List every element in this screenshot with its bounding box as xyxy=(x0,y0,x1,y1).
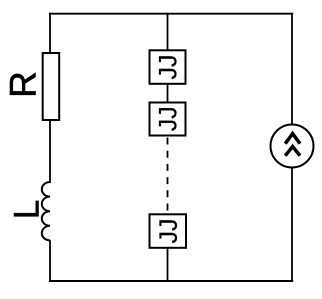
svg-text:L: L xyxy=(8,200,47,219)
Josephson junction JJN xyxy=(150,214,187,248)
resistor R xyxy=(43,53,60,120)
label L xyxy=(8,200,47,219)
svg-text:JJ: JJ xyxy=(155,55,183,80)
svg-text:JJ: JJ xyxy=(155,219,183,244)
label R xyxy=(3,71,44,98)
current source I xyxy=(271,125,314,168)
Josephson junction JJ2 xyxy=(150,103,186,136)
wire top xyxy=(49,13,293,15)
wire right upper xyxy=(291,13,293,125)
inductor L xyxy=(42,182,50,240)
wire left middle xyxy=(49,120,51,183)
wire middle between JJ1 and JJ2 xyxy=(167,84,169,103)
wire middle dashed (ellipsis) xyxy=(167,138,169,215)
wire middle upper xyxy=(167,13,169,51)
wire right lower xyxy=(291,168,293,282)
svg-text:JJ: JJ xyxy=(155,106,183,131)
wire left upper xyxy=(49,13,51,54)
wire bottom xyxy=(49,280,293,282)
Josephson junction JJ1 xyxy=(150,50,186,84)
wire left lower xyxy=(49,240,51,282)
svg-text:R: R xyxy=(3,71,44,98)
wire middle lower xyxy=(167,248,169,282)
